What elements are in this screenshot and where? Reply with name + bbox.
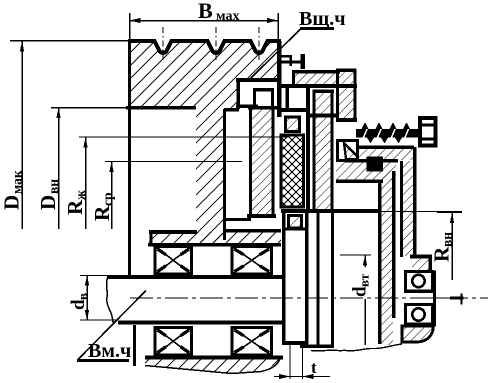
flywheel notch white cuts bbox=[155, 39, 268, 53]
main bearing upper-right bbox=[232, 247, 272, 275]
R_vn extension thin line bbox=[380, 211, 462, 213]
housing bottom retainer bbox=[402, 326, 433, 342]
shaft left break curve bbox=[107, 276, 114, 324]
elbow wedge bbox=[336, 162, 396, 181]
label driving part Vshch.ch with leader bbox=[250, 8, 346, 79]
adjusting screw with thread and head bbox=[356, 118, 437, 146]
svg-text:t: t bbox=[311, 358, 317, 377]
hub top edge bbox=[281, 209, 380, 213]
damper lower block bbox=[289, 216, 302, 229]
main bearing lower-right bbox=[232, 328, 272, 356]
main bearing lower-left bbox=[155, 328, 192, 356]
flywheel inner pocket edges bbox=[126, 108, 239, 241]
bottom flange left edge bbox=[133, 325, 136, 366]
dimension B_max bbox=[130, 0, 279, 41]
pressure plate column bbox=[313, 90, 335, 210]
clutch cover top strip bbox=[280, 72, 357, 86]
svg-text:мах: мах bbox=[216, 9, 239, 24]
cover-to-damper rivet bar bbox=[285, 87, 289, 110]
bottom wavy break line bbox=[311, 344, 402, 351]
svg-text:вт: вт bbox=[357, 273, 372, 287]
bottom flange strip bbox=[145, 357, 283, 373]
flywheel left edge bbox=[128, 40, 131, 277]
svg-text:в: в bbox=[75, 293, 90, 300]
dimension R_sr bbox=[90, 162, 242, 230]
flywheel rim groove B bbox=[255, 90, 273, 107]
svg-text:R: R bbox=[430, 246, 454, 262]
svg-text:ж: ж bbox=[73, 190, 88, 200]
flywheel top edge with V-notches bbox=[128, 41, 281, 53]
flywheel hub flange strip bbox=[148, 230, 281, 245]
svg-text:D: D bbox=[36, 195, 60, 210]
centerline bbox=[130, 297, 488, 299]
servo block bbox=[338, 141, 358, 161]
label driven part Vm.ch with leader bbox=[77, 291, 146, 363]
stud pin fixing cover to flywheel rim bbox=[279, 54, 305, 69]
dimension t bbox=[274, 358, 330, 379]
sleeve column B bbox=[402, 147, 415, 257]
sleeve column A bbox=[380, 171, 394, 345]
release lever box bbox=[306, 85, 336, 209]
svg-text:Вщ.ч: Вщ.ч bbox=[299, 8, 346, 30]
main bearing upper-left bbox=[155, 247, 192, 275]
disc hub walls bbox=[282, 209, 308, 379]
pilot ball bearing upper bbox=[406, 272, 433, 292]
torsion spring pack cross-hatched bbox=[281, 135, 304, 207]
centerline right thin solid segment bbox=[436, 297, 452, 299]
pilot ball bearing lower bbox=[406, 305, 433, 325]
bearing spacer bar bbox=[404, 290, 434, 294]
flywheel rim pocket A bbox=[236, 79, 278, 109]
dimension d_vt bbox=[340, 255, 372, 345]
svg-text:вн: вн bbox=[440, 232, 455, 247]
svg-text:R: R bbox=[90, 205, 114, 221]
svg-text:В: В bbox=[198, 0, 213, 23]
dimension R_zh bbox=[63, 137, 290, 229]
notch center dash-dot lines bbox=[163, 27, 259, 60]
svg-text:мак: мак bbox=[10, 170, 25, 194]
centerline end thick dash and tick bbox=[450, 296, 464, 299]
damper upper block bbox=[286, 117, 300, 132]
dimension D_mak bbox=[0, 41, 128, 229]
pilot bearing housing step bbox=[410, 257, 432, 273]
svg-text:R: R bbox=[63, 199, 87, 215]
shaft top edge bbox=[108, 275, 285, 279]
bearing block right edge bbox=[433, 271, 436, 327]
friction damper top plate bbox=[281, 108, 306, 112]
release sleeve white column walls bbox=[300, 213, 334, 347]
flywheel hatched body bbox=[130, 42, 279, 244]
shaft bottom edge bbox=[118, 321, 285, 325]
flywheel right edge bbox=[277, 41, 282, 117]
clutch housing ring column bbox=[226, 107, 277, 220]
dimension d_v bbox=[68, 276, 118, 321]
svg-text:ср: ср bbox=[100, 193, 115, 207]
spring strip under screw bbox=[344, 147, 414, 160]
svg-text:вн: вн bbox=[46, 179, 61, 194]
dimension R_vn bbox=[430, 213, 463, 281]
nut black square bbox=[367, 157, 384, 172]
clutch cover right column bbox=[336, 69, 357, 121]
svg-text:D: D bbox=[0, 195, 24, 210]
release fork bar bbox=[282, 209, 380, 213]
dimension D_vn bbox=[36, 108, 127, 230]
